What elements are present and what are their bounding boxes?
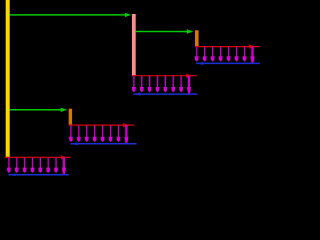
task bar T3 (tan)	[69, 109, 72, 125]
parallel region L2 (under T1): spawn arrowhead (red, right)	[186, 74, 192, 78]
task bar T1 (pink)	[132, 14, 136, 76]
parallel region L2 (under T1): iteration task arrows (magenta, downward)	[132, 76, 191, 94]
parallel region L1 (under T2): join/continuation line (blue)	[196, 62, 260, 64]
parallel region L2 (under T1): join/continuation line (blue)	[133, 93, 197, 95]
parallel region L1 (under T2): iteration task arrows (magenta, downward)	[195, 47, 255, 64]
parallel region L2 (under T1): join arrowhead (blue, left)	[135, 93, 140, 96]
parallel region L1 (under T2): spawn line (red)	[195, 46, 260, 48]
parallel region L3 (under T3): join arrowhead (blue, left)	[72, 142, 77, 145]
parallel region L2 (under T1): spawn line (red)	[132, 75, 198, 77]
task bar T2 (tan)	[195, 30, 199, 46]
parallel region L4 (under T0): join arrowhead (blue, left)	[10, 173, 15, 176]
parallel region L1 (under T2): spawn arrowhead (red, right)	[249, 44, 255, 48]
parallel region L4 (under T0): iteration task arrows (magenta, downward)	[7, 157, 66, 174]
parallel region L1 (under T2): join arrowhead (blue, left)	[198, 62, 203, 65]
parallel region L4 (under T0): spawn line (red)	[4, 156, 70, 158]
task bar T0 (main, yellow)	[6, 0, 10, 157]
parallel region L4 (under T0): join/continuation line (blue)	[8, 174, 69, 176]
spawn edge S1 (T0 to T1) (green arrow)	[10, 13, 132, 17]
parallel region L3 (under T3): join/continuation line (blue)	[70, 143, 136, 145]
parallel region L3 (under T3): spawn line (red)	[69, 124, 135, 126]
parallel region L4 (under T0): spawn arrowhead (red, right)	[61, 155, 67, 159]
spawn edge S2 (T1 to T2) (green arrow)	[136, 29, 194, 33]
spawn edge S3 (T0 to T3) (green arrow)	[10, 108, 68, 112]
parallel region L3 (under T3): spawn arrowhead (red, right)	[123, 123, 129, 127]
parallel region L3 (under T3): iteration task arrows (magenta, downward)	[69, 125, 128, 144]
